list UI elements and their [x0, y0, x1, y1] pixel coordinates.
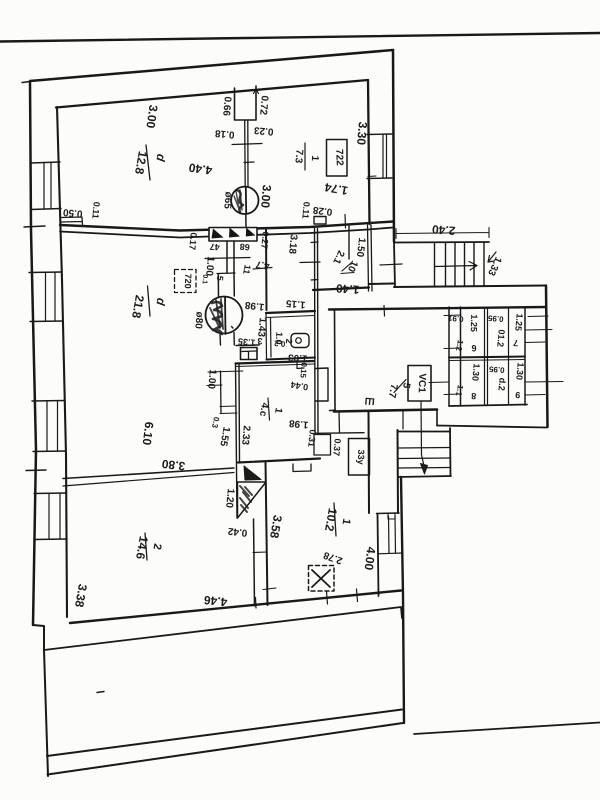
right wing ticks left [444, 315, 461, 395]
inner wall right [368, 80, 370, 224]
tick outer wall right y264 [380, 264, 402, 265]
svg-text:720: 720 [183, 273, 194, 288]
window W3 left [32, 401, 66, 452]
outer wall right (top block) [393, 50, 394, 242]
svg-text:1.0: 1.0 [273, 332, 284, 345]
flue pipe [245, 120, 248, 187]
svg-text:0.91: 0.91 [447, 313, 464, 323]
svg-text:ø80: ø80 [192, 311, 204, 330]
svg-text:1.98: 1.98 [288, 417, 309, 430]
outer wall top [30, 50, 393, 81]
svg-text:7: 7 [513, 338, 519, 348]
label 1/10.2 [334, 503, 336, 536]
bottom wall rooms [70, 591, 401, 624]
bathroom walls [266, 311, 315, 313]
svg-text:1.15: 1.15 [285, 297, 306, 310]
vestibule inner line [348, 225, 350, 259]
lower stairs direction line + arrow [421, 402, 425, 470]
corridor bottom wall [334, 410, 437, 412]
svg-text:1.25: 1.25 [513, 313, 524, 331]
outer wall left bottom jog [33, 625, 44, 650]
svg-text:7.3: 7.3 [292, 149, 304, 164]
label 1/4.c [268, 398, 270, 420]
svg-text:9: 9 [515, 390, 521, 400]
svg-text:2.40: 2.40 [431, 222, 456, 238]
svg-text:1.35: 1.35 [238, 336, 256, 347]
svg-text:47: 47 [209, 242, 220, 253]
circle 80 [206, 297, 243, 334]
vestibule bottom wall [313, 288, 369, 291]
right wall lower with window [401, 477, 404, 723]
svg-text:3.30: 3.30 [354, 121, 370, 146]
protrusion box right of kitchen [316, 368, 329, 401]
terrace [44, 650, 48, 776]
svg-text:0.15: 0.15 [298, 362, 308, 379]
svg-text:0.66: 0.66 [220, 96, 233, 117]
vestibule pillar [314, 217, 326, 225]
scan border line top [0, 33, 600, 42]
bottom right detached line [414, 723, 600, 735]
outer wall right x546 [546, 286, 548, 428]
small arrow near 1.33 [488, 252, 496, 262]
wall tick left y470 [26, 469, 46, 472]
outer wall left [30, 81, 36, 625]
label d/12.8 [146, 145, 150, 180]
svg-text:0.27: 0.27 [259, 231, 270, 249]
vestibule left wall [315, 229, 319, 434]
svg-text:0.11: 0.11 [90, 201, 101, 219]
label 1/7.3 [304, 143, 306, 170]
svg-text:11: 11 [241, 264, 253, 275]
svg-text:0.95: 0.95 [488, 364, 505, 374]
upper stairs direction arrow [435, 262, 477, 271]
svg-text:VC1: VC1 [416, 373, 428, 393]
svg-text:2.33: 2.33 [239, 425, 252, 446]
lower stairs [398, 431, 450, 433]
wall tick left y226 [24, 226, 45, 227]
svg-text:0.72: 0.72 [257, 95, 270, 116]
right wing block walls [448, 307, 450, 406]
svg-text:3: 3 [257, 336, 262, 346]
svg-text:0.11: 0.11 [300, 201, 311, 219]
triangle hatch room2 [244, 466, 261, 480]
svg-text:1.30: 1.30 [514, 362, 525, 380]
wall x266 (room corridor divider) [265, 230, 268, 310]
svg-text:d.2: d.2 [496, 377, 507, 391]
svg-text:0.17: 0.17 [187, 232, 198, 250]
svg-text:1.43: 1.43 [255, 317, 268, 338]
toilet bowl [291, 334, 309, 348]
upper stairs dim line [396, 228, 489, 239]
toilet room3 [236, 344, 259, 347]
svg-text:6: 6 [471, 343, 476, 353]
door bracket room 10.2 [293, 464, 311, 472]
right wing ticks right [525, 316, 563, 395]
gallery below block [436, 411, 438, 426]
svg-text:1.30: 1.30 [470, 363, 481, 381]
inner wall top [56, 80, 368, 108]
svg-text:0.95: 0.95 [487, 313, 504, 323]
svg-text:0.50: 0.50 [62, 206, 83, 219]
svg-text:01.2: 01.2 [495, 329, 506, 347]
label boxes [327, 140, 348, 177]
stove box triangles [212, 228, 256, 239]
svg-text:3.80: 3.80 [161, 457, 186, 474]
tick vestibule left [300, 261, 320, 264]
X dashed box [309, 566, 335, 592]
svg-text:1.40: 1.40 [335, 281, 360, 297]
ledge 0.50 [61, 217, 83, 225]
kitchen walls [236, 364, 240, 518]
triangle scribble [240, 486, 252, 512]
svg-text:0.23: 0.23 [253, 124, 274, 137]
label 2/14.6 [145, 533, 147, 560]
svg-text:5: 5 [215, 275, 225, 281]
svg-text:4.00: 4.00 [362, 546, 379, 571]
svg-text:3.18: 3.18 [286, 234, 299, 255]
vestibule right wall [368, 225, 373, 291]
svg-text:Ш: Ш [364, 395, 375, 407]
window W2 left [29, 272, 63, 322]
svg-text:2: 2 [284, 338, 294, 344]
corridor top wall [329, 307, 546, 310]
tick on pipe [232, 144, 262, 145]
svg-text:0.18: 0.18 [214, 127, 235, 140]
svg-text:ø65: ø65 [221, 191, 233, 210]
label 11/4.7 [253, 268, 272, 270]
label d/21.8 [148, 286, 151, 316]
svg-text:33y: 33y [356, 449, 367, 464]
svg-text:0.37: 0.37 [331, 438, 342, 456]
svg-text:8: 8 [471, 391, 477, 401]
svg-text:722: 722 [333, 149, 345, 166]
partition 3.80 [63, 468, 234, 479]
stove box on wall (hatched) [209, 228, 257, 242]
upper stairs rails [394, 241, 489, 244]
svg-text:68: 68 [239, 242, 250, 253]
passage walls below corridor [368, 412, 371, 513]
upper stairs treads [435, 243, 485, 287]
svg-text:1.25: 1.25 [469, 314, 480, 332]
upper stairs left wall [394, 243, 395, 288]
window W4 left [34, 493, 67, 540]
stove circle 65 [231, 187, 258, 214]
circle scribbles [210, 190, 243, 334]
wall between room1 and room2 (double band) [60, 222, 393, 231]
svg-text:4.7: 4.7 [255, 258, 271, 271]
window W1 left [30, 162, 60, 163]
window right wall top room [367, 134, 392, 179]
svg-text:1.20: 1.20 [223, 488, 236, 509]
inner wall left [57, 107, 67, 617]
svg-text:4.46: 4.46 [203, 593, 228, 609]
chimney top center [235, 86, 257, 120]
closet [316, 432, 364, 435]
wall from stove box to circle80 [227, 241, 234, 273]
svg-text:1.00: 1.00 [205, 369, 218, 390]
svg-text:0.31: 0.31 [306, 429, 317, 447]
chimney lower (narrow slot) [254, 519, 255, 606]
svg-text:0.1: 0.1 [201, 274, 209, 284]
label 5/7.7 [394, 380, 406, 393]
svg-text:6.10: 6.10 [140, 421, 157, 446]
svg-text:3.00: 3.00 [258, 184, 274, 209]
